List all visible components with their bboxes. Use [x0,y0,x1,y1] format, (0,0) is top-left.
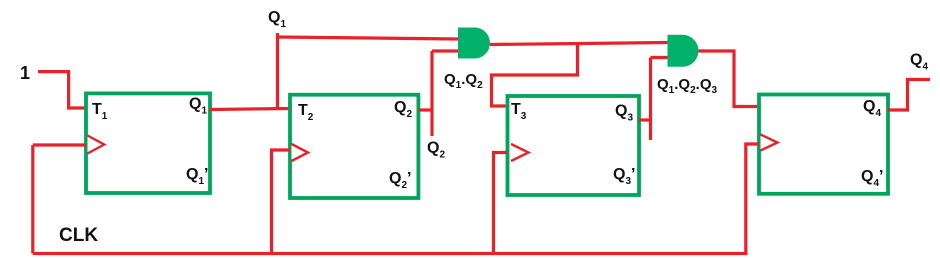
wire: junction to AND gate U2 bottom input [651,56,668,59]
flip-flop T2 box [290,95,418,198]
wire: CLK riser to FF3 clock [494,153,508,254]
clock triangle FF1 [88,136,105,154]
wire: CLK riser to FF2 clock [272,150,291,254]
wire: CLK to FF1 clock [33,143,86,146]
wire: Q1 output to T2 input [210,109,290,110]
svg-text:1: 1 [20,63,30,83]
wire: U2 output to T4 input [699,51,760,107]
AND gate U2 [668,35,699,67]
wire: Q1 to AND gate U1 top input [278,37,459,39]
wire: branch from U1 output down to T3 input [492,44,578,106]
clock triangle FF2 [292,144,309,161]
clock triangle FF4 [761,135,778,151]
wire: Q1 vertical riser [276,33,279,109]
wire: Q2 output to junction [419,108,432,111]
wire: junction to AND gate U1 bottom input [432,49,458,52]
flip-flop T1 box [86,93,210,193]
svg-text:CLK: CLK [59,225,98,246]
wire: Q3 output to junction [639,118,651,121]
clock triangle FF3 [511,144,529,161]
wire: Q4 output [888,80,930,111]
flip-flop T4 box [759,95,888,194]
flip-flop T3 box [508,96,640,195]
wire: Q2 junction vertical [430,51,433,136]
wire: CLK riser to FF4 clock [746,144,759,254]
wire: Q3 junction vertical [649,58,652,141]
AND gate U1 [458,28,490,59]
wire: U1 output to U2 top input [490,43,668,45]
wire: CLK bottom bus [33,252,748,255]
wire: CLK bus left vertical [31,145,34,254]
wire: 1 input to T1 [38,72,86,108]
